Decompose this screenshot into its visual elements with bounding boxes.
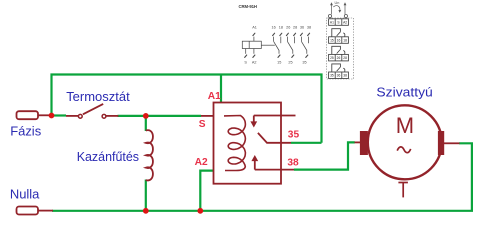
svg-text:35: 35: [288, 129, 300, 140]
svg-text:Szivattyú: Szivattyú: [376, 85, 432, 100]
svg-text:A1: A1: [208, 91, 221, 102]
svg-text:16: 16: [337, 38, 341, 42]
svg-text:S: S: [244, 61, 247, 65]
svg-text:16: 16: [271, 25, 275, 29]
contact 16/18/15: [273, 37, 275, 42]
pin clamp ticks: [245, 33, 310, 57]
junction: heater-neutral node: [143, 208, 149, 214]
svg-text:Un: Un: [335, 1, 340, 5]
svg-text:15: 15: [277, 61, 281, 65]
inductor Kazánfűtés (boiler heating coil): [146, 130, 153, 180]
terminal Nulla: [17, 207, 39, 215]
svg-text:15: 15: [330, 38, 334, 42]
motor AC tilde: [397, 147, 411, 153]
terminal circle right: [344, 15, 347, 18]
svg-text:Nulla: Nulla: [10, 186, 40, 201]
wire: neutral bottom bus (green): [52, 143, 472, 211]
supply pin right with arrow: [344, 4, 346, 14]
svg-text:Fázis: Fázis: [10, 123, 41, 138]
motor right terminal block: [438, 131, 444, 155]
contact 26/28/25: [286, 37, 288, 42]
svg-text:18: 18: [343, 38, 347, 42]
relay contact: fixed 36 arm with down arrow: [254, 115, 296, 117]
svg-text:38: 38: [343, 74, 347, 78]
wire: A1 drop from bus to relay: [220, 75, 222, 103]
terminal row 15 16 18: [329, 37, 349, 44]
mechanical link line: [261, 44, 275, 46]
terminal row 25 26 28: [329, 54, 349, 61]
svg-text:A2: A2: [343, 20, 347, 24]
motor shaft/ground T symbol: [398, 182, 408, 184]
supply pin left with arrow: [331, 4, 333, 14]
wire: stub out of right block (dark red): [444, 142, 460, 144]
svg-text:38: 38: [287, 157, 299, 168]
relay U1 box: [214, 103, 282, 184]
wire: thermostat to S junction (green): [118, 115, 202, 117]
wire: heater branch vertical (green): [145, 116, 147, 131]
terminal row 35 36 38: [329, 72, 349, 79]
wire: contact 38 to motor (green): [294, 142, 355, 169]
contact glyph 3: [332, 64, 345, 72]
wire: S lead into relay (dark red): [201, 115, 214, 117]
relay contact: movable blade to 35: [258, 133, 291, 143]
svg-text:A1: A1: [252, 25, 257, 29]
junction: phase node: [49, 113, 55, 119]
pin A1 lead: [253, 37, 255, 42]
svg-text:35: 35: [302, 61, 306, 65]
svg-text:A2: A2: [195, 157, 208, 168]
motor left terminal block: [360, 131, 368, 155]
svg-text:25: 25: [288, 61, 292, 65]
contact 36/38/35: [300, 37, 302, 42]
svg-text:A1: A1: [330, 20, 334, 24]
control arc arrow: [333, 6, 340, 11]
terminal circle left: [328, 15, 331, 18]
relay coil symbol box: [242, 41, 261, 48]
svg-text:S: S: [199, 119, 206, 130]
svg-text:28: 28: [343, 56, 347, 60]
relay contact: fixed arm with up arrow to 38: [254, 159, 256, 170]
arrowheads of supply pins: [330, 2, 333, 5]
svg-text:26: 26: [337, 56, 341, 60]
svg-text:Kazánfűtés: Kazánfűtés: [77, 149, 140, 164]
terminal Fázis: [17, 111, 39, 119]
dashed enclosure: [327, 18, 354, 79]
contact glyph 1: [332, 29, 345, 37]
pin S lead: [245, 49, 247, 54]
svg-text:36: 36: [300, 25, 304, 29]
svg-text:25: 25: [330, 56, 334, 60]
wire: contact 35 to phase bus (green): [291, 142, 322, 144]
svg-text:18: 18: [279, 25, 283, 29]
wire: stub into left block (dark red): [355, 141, 361, 143]
switch Termosztát (thermostat): [66, 115, 78, 117]
motor M1 Szivattyú (pump): [368, 105, 442, 179]
svg-text:35: 35: [330, 74, 334, 78]
junction: thermostat/S node: [143, 113, 149, 119]
contact glyph 2: [332, 46, 345, 54]
wire: from phase junction to thermostat (green part): [52, 114, 67, 116]
svg-text:28: 28: [293, 25, 297, 29]
wire: phase top bus (green): [52, 75, 322, 143]
wire: A2 drop to neutral bus (green): [200, 171, 213, 211]
svg-text:M: M: [396, 113, 414, 138]
terminal row A1 S A2: [329, 19, 349, 26]
junction: A2-neutral node: [197, 208, 203, 214]
pin A2 lead: [253, 49, 255, 54]
svg-text:36: 36: [337, 74, 341, 78]
relay coil (inside box): [224, 116, 245, 171]
svg-text:Termosztát: Termosztát: [66, 89, 130, 104]
svg-text:38: 38: [307, 25, 311, 29]
svg-text:A2: A2: [252, 61, 257, 65]
svg-text:CRM-91H: CRM-91H: [239, 4, 257, 9]
svg-text:26: 26: [286, 25, 290, 29]
